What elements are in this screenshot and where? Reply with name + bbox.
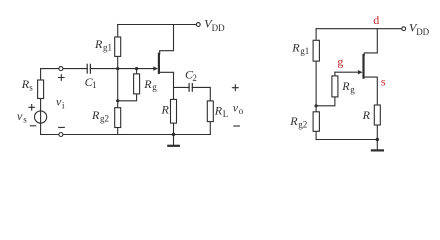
svg-text:g: g [152, 82, 157, 92]
svg-text:s: s [381, 74, 386, 88]
svg-text:R: R [362, 108, 371, 122]
svg-text:o: o [239, 106, 244, 116]
svg-text:2: 2 [192, 73, 197, 83]
svg-text:g2: g2 [298, 120, 307, 130]
svg-text:R: R [91, 108, 100, 122]
svg-text:g: g [350, 84, 355, 94]
svg-text:g1: g1 [300, 46, 309, 56]
svg-text:R: R [214, 104, 223, 118]
svg-text:i: i [62, 100, 65, 110]
svg-text:DD: DD [212, 23, 225, 33]
svg-text:DD: DD [416, 27, 429, 37]
svg-text:s: s [29, 83, 33, 93]
svg-text:R: R [161, 103, 170, 117]
svg-text:1: 1 [92, 80, 97, 90]
svg-text:R: R [291, 41, 300, 55]
svg-text:d: d [373, 13, 379, 27]
svg-text:L: L [223, 109, 229, 119]
svg-text:R: R [289, 114, 298, 128]
svg-text:v: v [17, 109, 23, 123]
svg-text:s: s [23, 115, 27, 125]
svg-text:g2: g2 [100, 114, 109, 124]
svg-text:g: g [337, 54, 343, 68]
svg-text:R: R [143, 77, 152, 91]
svg-text:R: R [94, 37, 103, 51]
svg-text:R: R [341, 79, 350, 93]
svg-text:g1: g1 [103, 43, 112, 53]
